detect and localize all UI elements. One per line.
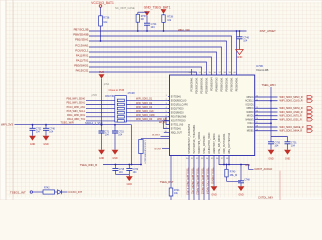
capacitor C732 104: [30, 128, 36, 130]
wire bottom pin 0 down: [188, 156, 190, 201]
svg-text:CXTDL_MIX: CXTDL_MIX: [258, 196, 273, 200]
svg-text:L706 4.7uH DMG1012T: L706 4.7uH DMG1012T: [144, 141, 146, 165]
wire rail upper: [15, 124, 132, 126]
svg-text:GND: GND: [285, 157, 291, 160]
wire W4: [89, 47, 222, 75]
svg-text:W_RST: W_RST: [152, 135, 160, 137]
pin 5 left stub: [168, 112, 170, 114]
svg-text:104: 104: [291, 144, 296, 147]
wire cap stem x46: [45, 124, 47, 126]
svg-text:104: 104: [274, 144, 279, 147]
svg-text:R741: R741: [174, 190, 180, 192]
svg-text:MIX#1: MIX#1: [247, 127, 254, 129]
svg-text:ABG_OUT/TEST#10: ABG_OUT/TEST#10: [228, 132, 231, 154]
svg-text:PB3/SWO1: PB3/SWO1: [74, 64, 89, 68]
wire cap stem x32.5: [32, 124, 34, 126]
svg-text:TEST/SWCLK_TCK1#SWD1: TEST/SWCLK_TCK1#SWD1: [194, 124, 196, 154]
svg-text:GND: GND: [211, 194, 217, 197]
svg-text:PD6/BIO21#1: PD6/BIO21#1: [226, 77, 228, 92]
svg-text:GND: GND: [245, 165, 250, 167]
wire pack row 4 right: [126, 112, 169, 114]
svg-text:SYSPLBB/TEST_CLK#SWV0: SYSPLBB/TEST_CLK#SWV0: [189, 123, 191, 154]
svg-text:WIFI_SDIO_CLK0_R: WIFI_SDIO_CLK0_R: [280, 100, 303, 103]
svg-text:p7k5: p7k5: [92, 94, 98, 97]
wire W9: [89, 72, 197, 75]
wire R737 to W1: [137, 22, 139, 31]
svg-text:WIFI_SDIO_D0: WIFI_SDIO_D0: [136, 119, 153, 121]
svg-text:WIFI_SDIO_INT0_R: WIFI_SDIO_INT0_R: [280, 115, 302, 118]
svg-text:PA11/RX1: PA11/RX1: [76, 54, 89, 58]
svg-text:SWDIO/TMS_SWD01: SWDIO/TMS_SWD01: [199, 131, 201, 154]
svg-text:EYTD0#1: EYTD0#1: [171, 96, 182, 98]
pin 2 left stub: [168, 100, 170, 102]
svg-text:C732: C732: [36, 129, 42, 131]
ground GND top right: [236, 50, 244, 55]
wire W1 WIFI_32K: [89, 30, 247, 32]
svg-text:PB6/SDA0B: PB6/SDA0B: [73, 33, 88, 37]
wire pack row 1 left: [86, 99, 115, 101]
wire pack row 2 right: [126, 104, 169, 106]
wire right pin MIDB1: [255, 130, 278, 132]
wire right pin MIBO1: [255, 107, 278, 109]
wire L loop: [141, 138, 170, 140]
wire right pin MIXD1: [255, 115, 278, 117]
svg-text:WIFI_3V3: WIFI_3V3: [1, 123, 13, 127]
wire bottom pin 7 corner: [219, 156, 249, 165]
svg-text:EXD0/BSCLK0: EXD0/BSCLK0: [171, 100, 187, 102]
resistor R736 10k: [99, 16, 103, 26]
pin 7 left stub: [164, 120, 170, 122]
svg-text:104: 104: [151, 26, 156, 29]
svg-text:XBQ_OUT: XBQ_OUT: [171, 132, 183, 134]
resistor R742 33R: [43, 190, 55, 194]
svg-text:TSEG_WIFI_TXD_R#014: TSEG_WIFI_TXD_R#014: [205, 168, 207, 195]
port WIFI_SDIO_MOSI_R: [307, 107, 312, 110]
svg-text:C/CXO_INT: C/CXO_INT: [68, 190, 82, 194]
wire cap stem 1: [270, 137, 272, 142]
wire pack jog 1: [164, 121, 170, 129]
svg-text:GND: GND: [43, 143, 49, 146]
wire pack row 5 left: [86, 116, 115, 118]
svg-text:NC_XINT_CASE: NC_XINT_CASE: [115, 6, 135, 10]
svg-text:WIFI_SDIO_MISO_R: WIFI_SDIO_MISO_R: [280, 96, 303, 99]
svg-text:GND: GND: [237, 56, 243, 59]
sheet border: [0, 0, 6, 200]
svg-text:PC13/AN1: PC13/AN1: [75, 44, 89, 48]
wire cap stem 2: [287, 137, 289, 142]
wire right pin MISO1: [255, 96, 278, 98]
capacitor C7L115: [112, 168, 118, 170]
svg-text:0R: 0R: [141, 18, 144, 21]
ground GND br1: [268, 150, 275, 155]
svg-text:IO2XD1: IO2XD1: [246, 104, 255, 106]
wire W3: [89, 41, 227, 75]
svg-text:EYTD1_IN0: EYTD1_IN0: [171, 124, 184, 126]
capacitor C746 104: [237, 37, 243, 39]
svg-text:WIFI_SDIO_IO01_R: WIFI_SDIO_IO01_R: [280, 118, 302, 121]
svg-text:MISO1: MISO1: [247, 97, 255, 99]
svg-text:GND: GND: [99, 157, 105, 160]
power port GND_TSEG arrow: [144, 11, 150, 16]
ground GND lower: [126, 176, 133, 181]
wire pack row 5 right: [126, 116, 169, 118]
svg-text:WIFI_SDIO_D1: WIFI_SDIO_D1: [136, 99, 153, 101]
wire cap stem x101.5: [101, 124, 103, 126]
wire rail lower: [103, 164, 141, 166]
svg-text:Close to PCB: Close to PCB: [109, 88, 125, 92]
wire pack jog 2: [166, 117, 170, 125]
wire pack row 6 right: [126, 120, 169, 122]
resistor pack element 3: [117, 107, 124, 110]
ground GND rail x46: [43, 136, 50, 141]
svg-text:MIXD1: MIXD1: [247, 116, 255, 118]
wire right rail horizontal: [271, 136, 288, 138]
port WIFI_SDIO_CS00_R: [307, 110, 312, 113]
port WIFI_SDIO_MIX#_R: [307, 129, 312, 132]
wire right rail vertical: [270, 87, 272, 137]
svg-text:IO4L1: IO4L1: [248, 123, 255, 125]
ground GND rail x32.5: [29, 136, 36, 141]
svg-text:TSEG_WIFI: TSEG_WIFI: [262, 83, 276, 87]
svg-text:TSEG_WIFI: TSEG_WIFI: [61, 122, 75, 125]
power port arrow 2: [161, 9, 167, 13]
ic U706 body: [170, 75, 255, 156]
wire pack row 6 left: [86, 120, 115, 122]
wire bottom pin 2 down: [198, 156, 200, 201]
svg-text:VCC3V3_BAT1: VCC3V3_BAT1: [91, 1, 114, 5]
svg-text:GND_TSEG_BAT1: GND_TSEG_BAT1: [144, 6, 171, 10]
svg-text:TSEG_WIFI_SWO_R#012: TSEG_WIFI_SWO_R#012: [195, 168, 197, 196]
wire lcap stem x115.4: [115, 164, 117, 166]
resistor R741: [169, 188, 173, 196]
svg-text:TSEG1_INT: TSEG1_INT: [10, 190, 26, 194]
wire W1 cap junction: [239, 30, 241, 32]
wire pack row 3 left: [86, 108, 115, 110]
svg-text:C715: C715: [119, 169, 125, 171]
svg-text:C746: C746: [49, 129, 55, 131]
wire bottom pin 9 stub: [228, 156, 230, 165]
svg-text:STALL_IN/TDI#40: STALL_IN/TDI#40: [203, 135, 206, 154]
wire RST down: [170, 156, 172, 189]
wire pack row 2 left: [86, 104, 115, 106]
svg-text:PD5/BIO10#1: PD5/BIO10#1: [221, 77, 223, 92]
svg-text:PA11_WIFI_RX1: PA11_WIFI_RX1: [67, 114, 86, 117]
wire pack row 4 left: [86, 112, 115, 114]
svg-text:PB1/SDA1: PB1/SDA1: [75, 38, 89, 42]
wire right pin IO4L1: [255, 122, 271, 124]
wire rail corner down: [131, 125, 133, 165]
wire cap stem x115: [114, 124, 116, 126]
svg-text:N4MW1: N4MW1: [246, 119, 255, 121]
svg-text:PE0/BIO43#1: PE0/BIO43#1: [236, 77, 238, 92]
wire pack row 3 right: [126, 108, 169, 110]
svg-text:3V8: 3V8: [99, 70, 104, 74]
svg-text:C71: C71: [105, 131, 110, 133]
wire R738 to W1: [163, 22, 165, 31]
svg-text:R3C730: R3C730: [105, 95, 114, 98]
wire left lower pin: [161, 136, 170, 138]
wire W5: [89, 52, 217, 75]
resistor pack element 4: [117, 111, 124, 114]
wire lcap stem x129.3: [128, 164, 130, 166]
svg-text:XINT_ATDET: XINT_ATDET: [260, 29, 277, 33]
svg-text:104: 104: [243, 40, 248, 43]
ground GND rail2 x115: [112, 150, 119, 155]
svg-text:WIFI_SDIO_CS00_R: WIFI_SDIO_CS00_R: [280, 111, 303, 114]
capacitor C7101: [99, 131, 105, 133]
wire stub pin51: [191, 69, 193, 75]
port WIFI_SDIO_WAKE_R: [307, 125, 312, 128]
svg-text:PA12/TX1: PA12/TX1: [76, 59, 89, 63]
svg-text:WIFI_32K: WIFI_32K: [178, 28, 190, 32]
svg-text:PD2/BMOSI0#1: PD2/BMOSI0#1: [206, 77, 208, 94]
svg-text:C748: C748: [244, 179, 250, 181]
resistor R738 10k: [162, 15, 165, 23]
wire R736 to bus: [100, 26, 102, 41]
pin 4 left stub: [168, 108, 170, 110]
wire right pin N4MW1: [255, 119, 278, 121]
svg-text:PD3/BSS0#4: PD3/BSS0#4: [211, 77, 213, 91]
resistor pack element 2: [117, 103, 124, 106]
wire bottom pin 6 to ground: [213, 156, 215, 187]
wire bottom pin 4 down: [208, 156, 210, 201]
port WIFI_SDIO_IO01_R: [307, 118, 312, 121]
capacitor C7L129: [126, 168, 132, 170]
svg-text:XGL11-DB: XGL11-DB: [256, 68, 269, 72]
capacitor C751 104: [285, 142, 291, 144]
svg-text:TSEG_WIFI_SWCLK_R10: TSEG_WIFI_SWCLK_R10: [185, 168, 187, 196]
wire bottom pin 8 stub: [223, 156, 225, 165]
wire 3V8 down to rail: [101, 79, 103, 125]
svg-text:EYTD2#1: EYTD2#1: [171, 128, 182, 130]
pin 10 left stub: [164, 132, 170, 134]
svg-text:PB6_WIFI_SDA0: PB6_WIFI_SDA0: [67, 98, 86, 101]
svg-text:TSEG_WIFI_RXD_R#013: TSEG_WIFI_RXD_R#013: [200, 168, 202, 195]
svg-text:PC13_WIFI_AN1: PC13_WIFI_AN1: [67, 106, 86, 109]
wire right pin AC3DL1: [255, 100, 278, 102]
wire C744 to W1: [146, 25, 148, 31]
svg-text:EXD1/DLLCAP0: EXD1/DLLCAP0: [171, 103, 189, 106]
svg-text:XOUT/TRCK0: XOUT/TRCK0: [171, 120, 186, 122]
svg-text:EXD2/TXD0: EXD2/TXD0: [171, 108, 184, 110]
svg-text:AGB2/TRST_N#001: AGB2/TRST_N#001: [213, 133, 216, 154]
svg-text:WIFI_SDIO_MOSI_R: WIFI_SDIO_MOSI_R: [280, 107, 303, 110]
svg-text:PD7/BIO32#1: PD7/BIO32#1: [231, 77, 233, 92]
diode D740: [55, 191, 58, 193]
svg-text:AC3DL1: AC3DL1: [245, 100, 254, 103]
pin 3 left stub: [168, 104, 170, 106]
svg-text:WIFI_SDIO_D2: WIFI_SDIO_D2: [136, 103, 153, 105]
port WIFI_SDIO_INT0_R: [307, 114, 312, 117]
pin 1 left stub: [168, 96, 170, 98]
inductor L706 4.7uH: [139, 140, 143, 154]
wire pack row 1 right: [126, 99, 169, 101]
svg-text:X32K_OUT/CLK#01: X32K_OUT/CLK#01: [224, 133, 226, 154]
svg-text:R742: R742: [44, 188, 50, 190]
resistor pack RN730 body: [115, 96, 127, 122]
resistor R737: [136, 14, 139, 22]
svg-text:GND: GND: [30, 143, 36, 146]
svg-text:MIBO1: MIBO1: [247, 108, 255, 110]
svg-text:47C08: 47C08: [128, 92, 136, 95]
capacitor C7115: [112, 131, 118, 133]
wire W6: [89, 57, 212, 75]
svg-text:PC9/BIO54#1: PC9/BIO54#1: [191, 77, 193, 92]
ground GND br2: [284, 150, 291, 155]
wire right pin N4BX0: [255, 111, 278, 113]
svg-text:EXD3/BXD0: EXD3/BXD0: [171, 112, 185, 114]
svg-text:N4BX0: N4BX0: [247, 112, 255, 114]
svg-text:PD0/BSCLK0#1: PD0/BSCLK0#1: [196, 77, 198, 94]
svg-text:PB1_WIFI_SDA1: PB1_WIFI_SDA1: [67, 102, 86, 105]
svg-text:XTAL_32K_IN#000: XTAL_32K_IN#000: [218, 134, 221, 154]
svg-text:C729: C729: [133, 169, 139, 171]
svg-text:GND: GND: [268, 157, 274, 160]
svg-text:WIFI_SDIO_WAKE_R: WIFI_SDIO_WAKE_R: [280, 126, 304, 129]
svg-text:TSEG_GND#15: TSEG_GND#15: [210, 168, 212, 185]
wire W2: [89, 36, 232, 75]
svg-text:p7k4: p7k4: [104, 83, 110, 86]
pin 6 left stub: [168, 116, 170, 118]
port WIFI_SDIO_MISO_R: [307, 95, 312, 98]
wire W7: [89, 62, 207, 75]
svg-text:TSEG_RST: TSEG_RST: [160, 180, 174, 184]
wire int 1: [33, 191, 44, 193]
svg-text:GND: GND: [127, 183, 133, 186]
svg-text:W_INT: W_INT: [154, 148, 161, 150]
resistor pack element 5: [117, 116, 124, 119]
svg-text:WIFI_SDIO_CMD: WIFI_SDIO_CMD: [136, 115, 155, 117]
wire L706 bottom: [140, 154, 142, 165]
svg-text:R738: R738: [167, 16, 173, 19]
wire lcap join: [115, 173, 129, 175]
svg-text:WIFI_SDIO_MIX#_R: WIFI_SDIO_MIX#_R: [280, 130, 303, 133]
wire W8: [89, 67, 202, 75]
svg-text:C715: C715: [118, 131, 124, 133]
svg-text:4BL_M: 4BL_M: [230, 175, 237, 177]
room outline: [279, 171, 281, 201]
port WIFI_SDIO_CLK0_R: [307, 99, 312, 102]
svg-text:CWNT_ACDLD: CWNT_ACDLD: [254, 167, 272, 171]
svg-text:GND: GND: [238, 194, 244, 197]
svg-text:PA15/CS1: PA15/CS1: [76, 69, 89, 73]
svg-text:TSEG_WIFI_SWDIO_R11: TSEG_WIFI_SWDIO_R11: [190, 168, 192, 195]
resistor pack element 6: [117, 120, 124, 123]
wire bottom pin 1 down: [193, 156, 195, 201]
svg-text:PC6/SCL1: PC6/SCL1: [75, 49, 89, 53]
svg-text:PD1/BMISO0#1: PD1/BMISO0#1: [201, 77, 203, 94]
svg-text:PD4/BINT0#2: PD4/BINT0#2: [216, 77, 218, 92]
svg-text:TSEG_WIFI_B: TSEG_WIFI_B: [80, 163, 97, 167]
wire bottom pin 3 down: [203, 156, 205, 201]
svg-text:MIDB1: MIDB1: [247, 131, 255, 133]
svg-text:ROUT/BUSW0: ROUT/BUSW0: [171, 116, 187, 118]
svg-text:PB7/SCL0B: PB7/SCL0B: [74, 28, 89, 32]
svg-text:WIFI_SDIO_CLK: WIFI_SDIO_CLK: [136, 111, 154, 113]
wire right pin MIX#1: [255, 126, 278, 128]
svg-text:ACJDL2/TDO_SW00: ACJDL2/TDO_SW00: [208, 132, 211, 154]
svg-text:R736: R736: [103, 17, 110, 20]
svg-text:WIFI_SDIO_D3: WIFI_SDIO_D3: [136, 107, 153, 109]
ground GND rail2 x101.5: [98, 150, 105, 155]
capacitor C748: [240, 164, 242, 166]
ground GND bc2: [238, 186, 245, 191]
svg-text:GND: GND: [112, 157, 118, 160]
capacitor C750 104: [268, 142, 274, 144]
wire stub pin60: [236, 31, 238, 75]
svg-text:U706: U706: [256, 64, 263, 68]
ground GND bc1: [211, 186, 218, 191]
resistor pack element 1: [117, 99, 124, 102]
capacitor C746 104: [43, 128, 49, 130]
svg-text:SSD1A_2_SSD: SSD1A_2_SSD: [85, 122, 103, 125]
svg-text:PC6_WIFI_SCL1: PC6_WIFI_SCL1: [67, 110, 86, 113]
wire int 2: [62, 191, 68, 193]
capacitor C744 104: [144, 23, 150, 25]
svg-text:R740: R740: [230, 172, 236, 174]
resistor R740: [226, 164, 228, 166]
wire CWNT branch: [249, 165, 254, 170]
wire left pin int: [162, 148, 170, 150]
